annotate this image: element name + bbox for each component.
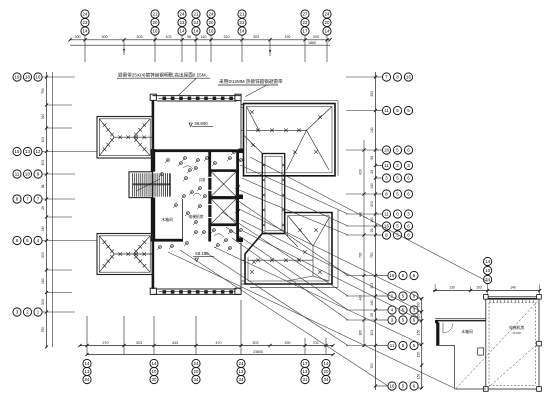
svg-text:34: 34 [324, 377, 329, 382]
axis bubbles top group 6 [238, 10, 246, 35]
svg-text:23800: 23800 [253, 350, 263, 354]
top dimension numbers [75, 35, 320, 45]
svg-text:JXU: JXU [170, 149, 177, 153]
roof right top bar [244, 101, 339, 176]
svg-text:10: 10 [209, 29, 214, 34]
svg-text:采用Φ12MM 热镀锌圆钢避雷带: 采用Φ12MM 热镀锌圆钢避雷带 [219, 78, 283, 85]
svg-text:31: 31 [303, 377, 308, 382]
svg-text:20: 20 [324, 369, 329, 374]
elevator shaft E1 [208, 172, 236, 197]
svg-text:130: 130 [449, 286, 455, 290]
svg-text:303: 303 [41, 252, 45, 258]
left dimension numbers [41, 88, 45, 332]
detached dimension line top [433, 284, 541, 297]
svg-text:水箱间: 水箱间 [461, 329, 473, 334]
leader fan lines [168, 157, 488, 388]
svg-text:29: 29 [41, 206, 45, 210]
svg-text:750: 750 [41, 327, 45, 333]
axis bubbles right group 12 [388, 306, 418, 314]
svg-text:11: 11 [15, 172, 20, 177]
svg-text:29: 29 [370, 170, 374, 174]
core walls [151, 149, 243, 243]
left dimension line [45, 72, 53, 349]
leader line note1 [179, 79, 197, 96]
svg-text:电梯机房: 电梯机房 [188, 214, 203, 219]
svg-text:34: 34 [239, 377, 244, 382]
svg-text:17: 17 [303, 29, 308, 34]
axis bubbles right group 11 [388, 292, 418, 300]
axis bubbles bottom group 5 [301, 359, 309, 383]
svg-text:703: 703 [359, 252, 363, 258]
parapet lightning belt top [150, 94, 241, 101]
svg-text:140: 140 [370, 127, 374, 133]
detached room left [435, 318, 486, 389]
svg-text:24: 24 [194, 20, 199, 25]
svg-text:11: 11 [384, 212, 389, 217]
axis bubbles top group 2 [151, 10, 159, 35]
svg-text:10: 10 [485, 268, 490, 273]
electrical symbols [157, 151, 242, 251]
svg-text:14: 14 [485, 259, 490, 264]
axis bubbles right group 4 [382, 161, 412, 169]
svg-text:10: 10 [153, 29, 158, 34]
svg-text:24: 24 [325, 12, 330, 17]
svg-text:29: 29 [370, 313, 374, 317]
svg-text:98: 98 [187, 35, 191, 39]
svg-text:24: 24 [239, 361, 244, 366]
svg-text:19: 19 [15, 75, 20, 80]
svg-text:20: 20 [209, 20, 214, 25]
axis bubbles bottom group 1 [83, 359, 91, 383]
axis bubbles top group 5 [207, 10, 215, 35]
svg-text:700: 700 [370, 363, 374, 369]
axis bubbles left group 1 [13, 73, 42, 81]
roof connectors right [241, 105, 245, 285]
svg-text:150: 150 [417, 352, 421, 358]
svg-text:23: 23 [240, 20, 245, 25]
svg-text:12: 12 [36, 149, 41, 154]
room labels [170, 149, 206, 219]
bottom dimension line [78, 344, 334, 356]
svg-text:14: 14 [324, 361, 329, 366]
level label 36.800 [189, 121, 213, 126]
svg-text:420: 420 [359, 169, 363, 175]
svg-text:16: 16 [406, 75, 411, 80]
svg-text:24: 24 [209, 12, 214, 17]
svg-text:18: 18 [390, 273, 395, 278]
svg-text:16: 16 [36, 75, 41, 80]
svg-text:150: 150 [417, 313, 421, 319]
note galvanized round steel [218, 78, 283, 85]
svg-text:750: 750 [41, 88, 45, 94]
axis bubbles top group 7 [301, 10, 309, 35]
svg-text:14: 14 [83, 29, 88, 34]
svg-text:303: 303 [370, 330, 374, 336]
axis bubbles right group 2 [382, 106, 412, 114]
axis bubbles left group 2 [13, 147, 42, 155]
axis bubbles top group 1 [81, 10, 89, 35]
detached dimension line left [417, 297, 424, 390]
axis bubbles top group 3 [178, 10, 186, 35]
svg-text:15: 15 [15, 149, 20, 154]
roof right top bar hips [244, 107, 332, 171]
svg-text:140: 140 [201, 35, 207, 39]
svg-text:34: 34 [85, 377, 90, 382]
svg-text:20: 20 [194, 369, 199, 374]
svg-text:21: 21 [194, 12, 199, 17]
svg-text:井道: 井道 [199, 177, 206, 182]
axis bubbles right group 15 [388, 382, 418, 390]
axis bubbles left group 3 [13, 170, 42, 178]
level label 58.150 [193, 251, 214, 261]
svg-text:443: 443 [359, 295, 363, 301]
axis bubbles right group 8 [382, 222, 412, 230]
svg-text:10: 10 [152, 369, 157, 374]
svg-text:303: 303 [41, 137, 45, 143]
svg-text:160: 160 [41, 114, 45, 120]
svg-text:470: 470 [216, 341, 222, 345]
axis bubbles right group 13 [388, 316, 418, 324]
bottom grid extension lines [87, 300, 326, 355]
axis bubbles bottom group 6 [322, 359, 330, 383]
svg-text:150: 150 [417, 374, 421, 380]
svg-text:11: 11 [384, 163, 389, 168]
svg-text:14: 14 [152, 361, 157, 366]
svg-text:23: 23 [83, 20, 88, 25]
svg-text:303: 303 [41, 160, 45, 166]
axis bubbles right group 10 [388, 271, 418, 279]
svg-text:140: 140 [370, 300, 374, 306]
svg-text:98: 98 [370, 156, 374, 160]
svg-text:36.800: 36.800 [512, 331, 521, 335]
svg-text:24: 24 [180, 12, 185, 17]
svg-text:14: 14 [194, 29, 199, 34]
svg-text:24: 24 [83, 12, 88, 17]
svg-text:150: 150 [417, 302, 421, 308]
top dimension line [68, 38, 331, 45]
svg-text:18: 18 [384, 148, 389, 153]
svg-text:303: 303 [137, 35, 143, 39]
room water tank [161, 199, 182, 239]
right connector lines [346, 77, 388, 386]
svg-text:23: 23 [180, 20, 185, 25]
svg-text:303: 303 [136, 341, 142, 345]
detached dashed diagonals [456, 302, 538, 389]
axis bubbles detached stack [484, 257, 492, 283]
svg-text:98: 98 [41, 185, 45, 189]
svg-text:14: 14 [240, 29, 245, 34]
svg-text:140: 140 [41, 226, 45, 232]
svg-text:16: 16 [390, 384, 395, 389]
svg-text:303: 303 [370, 201, 374, 207]
axis bubbles left group 4 [13, 195, 42, 203]
svg-text:160: 160 [41, 278, 45, 284]
parapet lightning belt bottom [150, 288, 241, 294]
svg-text:24: 24 [194, 361, 199, 366]
axis bubbles bottom group 2 [150, 359, 158, 383]
svg-text:200: 200 [313, 35, 319, 39]
svg-text:10: 10 [25, 172, 30, 177]
svg-text:190: 190 [285, 35, 291, 39]
left connector lines [42, 77, 97, 312]
axis bubbles right group 5 [382, 174, 412, 182]
roof right bottom bar hips [248, 216, 329, 282]
axis bubbles bottom group 3 [192, 359, 200, 383]
svg-text:433: 433 [172, 341, 178, 345]
svg-text:103: 103 [166, 35, 172, 39]
svg-text:21: 21 [153, 12, 158, 17]
svg-text:21: 21 [240, 12, 245, 17]
svg-text:20: 20 [325, 20, 330, 25]
detached dim connectors [418, 299, 422, 388]
svg-text:避雷带25X(4)镀锌扁钢明敷,高出屋面0.15M.: 避雷带25X(4)镀锌扁钢明敷,高出屋面0.15M. [118, 72, 207, 79]
svg-text:11: 11 [384, 108, 389, 113]
bottom dimension numbers [103, 341, 319, 354]
svg-text:11: 11 [390, 343, 395, 348]
svg-text:13: 13 [303, 369, 308, 374]
svg-text:300: 300 [102, 35, 108, 39]
svg-text:22: 22 [303, 20, 308, 25]
right dimension line [362, 72, 377, 390]
svg-text:18: 18 [25, 75, 30, 80]
svg-text:290: 290 [285, 341, 291, 345]
roof right spine [262, 154, 285, 234]
svg-text:14: 14 [180, 29, 185, 34]
svg-text:20: 20 [153, 20, 158, 25]
svg-text:333: 333 [370, 91, 374, 97]
central block side walls [152, 100, 241, 289]
axis bubbles bottom group 4 [237, 359, 245, 383]
axis bubbles right group 7 [382, 210, 412, 218]
roof right bottom bar [245, 210, 338, 288]
svg-text:13: 13 [85, 369, 90, 374]
stair S1 [129, 172, 171, 198]
svg-text:14: 14 [325, 29, 330, 34]
axis bubbles right group 9 [382, 231, 412, 239]
axis bubbles top group 8 [323, 10, 331, 35]
right dimension numbers [359, 91, 374, 369]
axis bubbles right group 1 [382, 73, 412, 81]
svg-text:17: 17 [303, 361, 308, 366]
svg-text:160: 160 [359, 330, 363, 336]
svg-text:303: 303 [253, 35, 259, 39]
svg-text:750: 750 [370, 252, 374, 258]
svg-text:14: 14 [85, 361, 90, 366]
svg-text:140: 140 [370, 183, 374, 189]
svg-text:303: 303 [41, 299, 45, 305]
svg-text:27: 27 [303, 12, 308, 17]
svg-text:270: 270 [103, 341, 109, 345]
svg-text:29: 29 [370, 229, 374, 233]
axis bubbles right group 14 [388, 341, 418, 349]
axis bubbles top group 4 [192, 10, 200, 35]
svg-text:34: 34 [485, 277, 490, 282]
axis bubbles left group 5 [13, 236, 42, 244]
svg-text:103: 103 [476, 286, 482, 290]
svg-text:30: 30 [152, 377, 157, 382]
axis bubbles right group 6 [382, 190, 412, 198]
svg-text:200: 200 [75, 35, 81, 39]
svg-text:13: 13 [25, 149, 30, 154]
svg-text:36.800: 36.800 [194, 121, 208, 126]
axis bubbles right group 3 [382, 146, 412, 154]
detached room right [484, 295, 542, 392]
svg-text:703: 703 [313, 341, 319, 345]
axis bubbles left group 6 [13, 308, 42, 316]
svg-text:310: 310 [224, 35, 230, 39]
svg-text:13: 13 [239, 369, 244, 374]
note lightning belt flat steel [117, 72, 210, 79]
svg-text:140: 140 [510, 286, 516, 290]
elevator shaft E2 [208, 199, 236, 224]
roof lower-left hip [97, 234, 153, 275]
svg-text:水箱间: 水箱间 [161, 217, 173, 222]
roof upper-left hip [97, 117, 153, 159]
svg-text:1880: 1880 [308, 41, 316, 45]
top grid extension lines [85, 35, 327, 62]
svg-text:303: 303 [253, 341, 259, 345]
svg-text:150: 150 [417, 330, 421, 336]
svg-text:34: 34 [194, 377, 199, 382]
leader line note2 [246, 86, 267, 97]
